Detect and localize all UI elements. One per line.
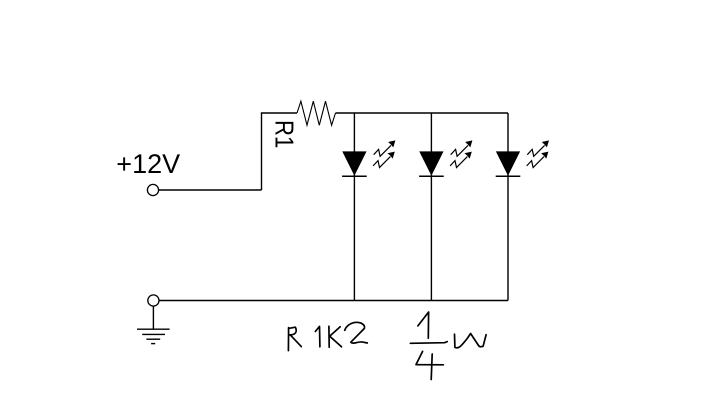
- svg-text:+12V: +12V: [116, 149, 180, 179]
- svg-text:R1: R1: [270, 120, 300, 148]
